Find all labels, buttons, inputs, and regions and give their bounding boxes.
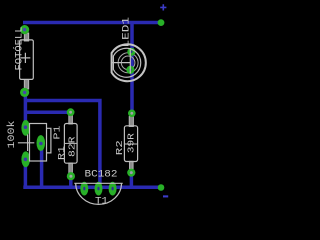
svg-text:FOTÓELL: FOTÓELL <box>11 26 25 70</box>
svg-text:P1: P1 <box>53 126 63 140</box>
svg-text:100k: 100k <box>6 121 18 149</box>
svg-text:BC182: BC182 <box>85 169 118 180</box>
svg-text:LED1: LED1 <box>121 17 132 48</box>
svg-text:39R: 39R <box>125 133 136 153</box>
svg-text:82R: 82R <box>66 136 77 157</box>
svg-text:T1: T1 <box>95 196 108 207</box>
svg-text:R2: R2 <box>115 140 125 155</box>
